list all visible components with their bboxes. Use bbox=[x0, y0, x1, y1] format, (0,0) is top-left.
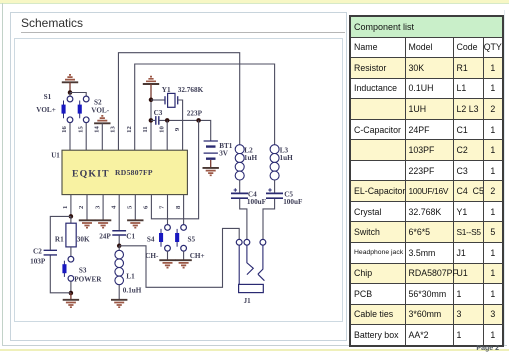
wire C1 node to jack tip bbox=[119, 228, 239, 287]
bottom page border bbox=[2, 345, 507, 346]
svg-text:223P: 223P bbox=[187, 109, 203, 117]
capacitor C2 bbox=[44, 250, 57, 255]
svg-text:C4: C4 bbox=[248, 190, 257, 198]
headphone jack J1 terminal 3 bbox=[260, 239, 266, 245]
wire S3 to bottom node bbox=[70, 281, 72, 293]
ground pin5 bbox=[127, 220, 143, 227]
capacitor C4 bbox=[231, 193, 248, 198]
capacitor C5 bbox=[266, 193, 283, 198]
svg-text:16: 16 bbox=[61, 126, 68, 133]
jack body J1 bbox=[239, 284, 264, 292]
svg-text:32.768K: 32.768K bbox=[178, 86, 204, 94]
schematics panel bbox=[10, 12, 347, 341]
ground below battery bbox=[203, 168, 219, 175]
svg-text:12: 12 bbox=[126, 126, 133, 133]
wire pin13 to L2 top bbox=[118, 53, 239, 150]
svg-text:1uH: 1uH bbox=[244, 154, 258, 162]
bottom yellow band bbox=[0, 349, 509, 352]
wire S5 to ground bbox=[183, 251, 185, 260]
ground above S1 bbox=[62, 75, 78, 93]
wire junction to S2 top bbox=[70, 93, 86, 97]
battery stem bbox=[210, 160, 212, 168]
svg-text:103P: 103P bbox=[30, 258, 46, 266]
svg-text:100uF: 100uF bbox=[283, 198, 303, 206]
wire pin12 to L3 top bbox=[135, 64, 275, 150]
svg-text:10: 10 bbox=[158, 126, 165, 133]
component list table bbox=[349, 15, 504, 347]
page number bbox=[476, 345, 499, 352]
switch S1 bbox=[62, 96, 73, 123]
heading underline bbox=[21, 32, 345, 33]
node pin1/R1/C2 bbox=[69, 214, 74, 219]
svg-text:C5: C5 bbox=[284, 190, 293, 198]
ground pin3 bbox=[95, 220, 111, 227]
svg-text:0.1uH: 0.1uH bbox=[123, 286, 142, 294]
svg-text:24P: 24P bbox=[99, 233, 111, 241]
inductor L3 bbox=[270, 145, 279, 180]
svg-text:4: 4 bbox=[110, 205, 117, 209]
wire C1 to node bbox=[118, 236, 120, 246]
svg-text:POWER: POWER bbox=[74, 275, 102, 283]
svg-text:15: 15 bbox=[77, 126, 84, 133]
svg-text:9: 9 bbox=[174, 127, 181, 131]
svg-text:S5: S5 bbox=[188, 235, 196, 243]
ground S5 bbox=[175, 260, 191, 267]
capacitor C5 polarity bbox=[268, 188, 271, 191]
svg-text:2: 2 bbox=[78, 205, 85, 209]
svg-text:30K: 30K bbox=[77, 235, 90, 243]
svg-text:100uF: 100uF bbox=[247, 198, 267, 206]
wire node to L1 bbox=[118, 246, 120, 251]
svg-text:RD5807FP: RD5807FP bbox=[115, 168, 153, 177]
wire pin6 to 223P node bbox=[151, 120, 198, 218]
wire R1 to S3 bbox=[70, 247, 72, 257]
svg-text:C3: C3 bbox=[154, 109, 163, 117]
svg-text:C2: C2 bbox=[33, 247, 42, 255]
ground below S3 node bbox=[63, 293, 79, 307]
wire pin1 bbox=[70, 195, 72, 217]
wire node to R1 bbox=[70, 216, 72, 223]
wire C3 to battery drop bbox=[151, 120, 211, 140]
wire C4 to jack mid bbox=[240, 199, 247, 240]
ground above crystal node bbox=[143, 77, 159, 150]
svg-text:S4: S4 bbox=[147, 235, 155, 243]
capacitor C1 bbox=[112, 231, 126, 235]
jack terminal 1 stem bbox=[238, 245, 240, 284]
svg-text:R1: R1 bbox=[55, 235, 64, 243]
node C3 left bbox=[149, 118, 154, 123]
svg-text:EQKIT: EQKIT bbox=[72, 169, 110, 180]
svg-text:J1: J1 bbox=[244, 297, 252, 305]
wire pin8 bbox=[183, 195, 185, 225]
wire pin5 bbox=[134, 195, 136, 220]
svg-text:8: 8 bbox=[175, 205, 182, 209]
crystal Y1 bbox=[165, 93, 178, 107]
wire node to Y1 bbox=[151, 99, 165, 101]
svg-text:S3: S3 bbox=[79, 266, 87, 274]
capacitor C3 bbox=[156, 116, 159, 125]
svg-text:S1: S1 bbox=[44, 93, 52, 101]
node pin6 riser bbox=[196, 118, 201, 123]
svg-text:11: 11 bbox=[142, 126, 149, 132]
capacitor C2 branch wire bbox=[50, 216, 71, 292]
svg-text:5: 5 bbox=[127, 205, 134, 209]
svg-text:VOL-: VOL- bbox=[91, 106, 109, 114]
svg-text:7: 7 bbox=[159, 205, 166, 209]
svg-text:3V: 3V bbox=[219, 150, 229, 158]
wire S2 to pin15 bbox=[85, 123, 87, 150]
switch S3 bbox=[62, 256, 73, 281]
svg-text:3: 3 bbox=[94, 205, 101, 209]
resistor R1 bbox=[66, 223, 76, 247]
ground pin2 bbox=[79, 220, 95, 227]
svg-text:14: 14 bbox=[94, 126, 101, 133]
svg-text:13: 13 bbox=[110, 126, 117, 133]
op-amp U1 chip body bbox=[62, 150, 187, 194]
headphone jack J1 terminal 1 bbox=[236, 239, 242, 245]
battery BT1 bbox=[204, 141, 218, 159]
wire S4 to ground bbox=[167, 251, 169, 260]
inductor L2 bbox=[235, 145, 244, 180]
wire C5 to jack right bbox=[263, 199, 275, 240]
wire pin7 bbox=[167, 195, 169, 225]
jack terminal 3 lever bbox=[258, 245, 265, 281]
svg-text:6: 6 bbox=[143, 205, 150, 209]
schematic inner box bbox=[14, 38, 343, 322]
node junction S1/S2 bbox=[68, 90, 73, 95]
top yellow band bbox=[0, 0, 509, 3]
node S3 bottom bbox=[69, 291, 74, 296]
node crystal left bbox=[149, 98, 154, 103]
capacitor C4 polarity bbox=[234, 188, 237, 191]
wire pin3 bbox=[102, 195, 104, 220]
switch S2 bbox=[78, 96, 89, 123]
wire L1 to ground bbox=[118, 285, 120, 300]
svg-text:U1: U1 bbox=[51, 152, 60, 160]
ground S4 bbox=[159, 260, 175, 267]
switch S5 bbox=[175, 225, 186, 252]
svg-text:1uH: 1uH bbox=[280, 154, 294, 162]
wire L3 to C5 bbox=[274, 180, 276, 193]
ground below L1 bbox=[111, 300, 127, 307]
node C1/L1/jack bbox=[117, 244, 122, 249]
ground above pin14 bbox=[94, 116, 110, 150]
svg-text:CH-: CH- bbox=[145, 252, 159, 260]
node pin10 bbox=[165, 118, 170, 123]
headphone jack J1 terminal 2 bbox=[244, 239, 250, 245]
wire S1 to pin16 bbox=[69, 123, 71, 150]
schematics heading bbox=[21, 16, 83, 30]
svg-text:L1: L1 bbox=[126, 272, 135, 280]
wire L2 to C4 bbox=[239, 180, 241, 193]
svg-text:S2: S2 bbox=[94, 99, 102, 107]
svg-text:1: 1 bbox=[62, 206, 69, 209]
svg-text:VOL+: VOL+ bbox=[36, 106, 56, 114]
wire Y1 right to pin9 bbox=[178, 100, 183, 150]
svg-text:Y1: Y1 bbox=[162, 86, 171, 94]
switch S4 bbox=[159, 225, 170, 252]
jack terminal 2 lever bbox=[247, 245, 253, 274]
wire pin4 bbox=[118, 195, 120, 231]
svg-text:C1: C1 bbox=[126, 233, 135, 241]
svg-text:CH+: CH+ bbox=[190, 252, 205, 260]
wire pin10 bbox=[166, 120, 168, 150]
wire pin2 bbox=[86, 195, 88, 220]
right faint border bbox=[504, 10, 505, 345]
inductor L1 bbox=[115, 250, 124, 284]
left page border bbox=[2, 3, 3, 346]
